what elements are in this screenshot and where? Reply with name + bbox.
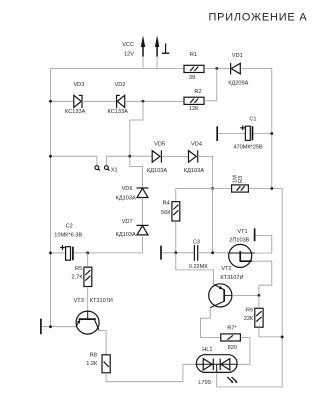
wire VD2 to R2 xyxy=(124,100,184,102)
ground symbol xyxy=(162,44,169,54)
zener VD2 xyxy=(108,82,129,115)
wire VT1 source loop to VT2 base xyxy=(252,261,272,295)
svg-text:VD3: VD3 xyxy=(73,82,84,88)
diode VD1 xyxy=(228,53,248,86)
wire VD6 to VD7 xyxy=(142,198,144,226)
wire arrow2 lead xyxy=(156,57,158,69)
node C3 / vertical from R3 node xyxy=(211,251,214,254)
svg-text:R5: R5 xyxy=(75,266,82,272)
svg-text:R3: R3 xyxy=(238,176,244,183)
node VD6 branch on rail xyxy=(128,155,131,158)
svg-text:HL1: HL1 xyxy=(202,347,212,353)
svg-text:C3: C3 xyxy=(193,239,200,245)
svg-text:2.7К: 2.7К xyxy=(72,274,84,280)
svg-text:КД103А: КД103А xyxy=(116,195,136,201)
svg-text:R8: R8 xyxy=(90,352,97,358)
svg-text:VT1: VT1 xyxy=(237,229,247,235)
resistor R8 xyxy=(86,352,110,372)
resistor R1 xyxy=(184,52,204,81)
svg-text:12К: 12К xyxy=(189,106,199,112)
wire R8 bottom to HL1 left xyxy=(106,364,196,381)
transistor VT1 (JFET 2П103Б) xyxy=(229,229,255,268)
svg-text:C2: C2 xyxy=(66,223,73,229)
wire R1 to VD1 xyxy=(204,68,230,70)
svg-text:0.22МК: 0.22МК xyxy=(189,264,209,270)
capacitor C3 xyxy=(189,239,209,270)
terminal bar VT1 drain xyxy=(254,228,256,241)
svg-text:R6: R6 xyxy=(246,307,253,313)
wire node to R3 xyxy=(213,188,232,190)
wire R6 top xyxy=(258,295,260,308)
wire VT2 base to R6 node xyxy=(232,294,259,296)
node left rail row B xyxy=(49,100,52,103)
svg-text:КД103А: КД103А xyxy=(147,168,167,174)
resistor R3 xyxy=(232,175,249,192)
wire VD7 bottom to C2 row xyxy=(142,235,144,253)
svg-text:VT2: VT2 xyxy=(221,266,231,272)
transistor VT2 (КТ3107И) xyxy=(209,266,244,308)
resistor R6 xyxy=(244,307,263,327)
capacitor C2 xyxy=(54,223,82,260)
svg-text:R7*: R7* xyxy=(227,325,237,331)
svg-text:820: 820 xyxy=(228,345,237,351)
transistor VT3 (КТ3107И) xyxy=(74,298,113,334)
node R3 / right column xyxy=(270,187,273,190)
connector X1 xyxy=(95,166,118,174)
svg-text:R2: R2 xyxy=(194,89,201,95)
diode VD4 xyxy=(184,141,204,174)
wire VT2 collector path to R7 xyxy=(201,308,221,338)
node left rail C2 row xyxy=(49,252,52,255)
node left rail X1 row xyxy=(49,155,52,158)
wire C3 left xyxy=(162,252,194,254)
node VT2 base / R6 xyxy=(258,294,261,297)
diode VD5 xyxy=(147,141,167,174)
wire R3 right to right-edge column xyxy=(217,189,283,388)
wire VD2 node down-jog to X1 rail xyxy=(130,101,143,156)
svg-text:VCC: VCC xyxy=(122,42,134,48)
wire X1 rail right xyxy=(106,156,152,165)
svg-text:10МК*6.3В: 10МК*6.3В xyxy=(54,232,82,238)
wire VT3 emitter row xyxy=(42,326,77,328)
svg-text:56К: 56К xyxy=(161,210,171,216)
wire R7 right to HL1 xyxy=(237,337,250,364)
svg-text:VD5: VD5 xyxy=(154,141,165,147)
svg-text:КТ3107И: КТ3107И xyxy=(90,298,113,304)
svg-text:470МК*25В: 470МК*25В xyxy=(233,144,263,150)
wire C3 right to VT1 gate xyxy=(198,252,229,254)
wire R6 bottom to right column xyxy=(259,327,282,337)
svg-text:C1: C1 xyxy=(249,116,256,122)
svg-text:R1: R1 xyxy=(190,52,197,58)
node R6 / right column xyxy=(281,336,284,339)
wire VD3 to VD2 xyxy=(81,100,116,102)
zener VD3 xyxy=(65,82,86,115)
svg-text:VD7: VD7 xyxy=(122,219,133,225)
node VD2 branch xyxy=(142,100,145,103)
terminal bar C3 xyxy=(160,246,162,260)
terminal bar C1 xyxy=(216,126,218,141)
svg-text:L799: L799 xyxy=(198,380,210,386)
svg-text:22К: 22К xyxy=(244,316,254,322)
svg-text:12V: 12V xyxy=(124,51,134,57)
wire VT2 emitter path xyxy=(176,253,214,285)
node R5 branch xyxy=(86,252,89,255)
capacitor C1 xyxy=(233,116,263,150)
wire node to R4 xyxy=(176,189,213,202)
wire C2 right to VD7 corner xyxy=(74,252,143,254)
wire left rail xyxy=(50,69,52,327)
svg-text:VT3: VT3 xyxy=(74,298,84,304)
node R3/R4 xyxy=(211,187,214,190)
diode VD7 xyxy=(116,219,149,238)
wire VT3 collector to R8 xyxy=(99,330,106,354)
power arrow 2 xyxy=(155,35,159,56)
HL1 emission arrows xyxy=(227,377,237,383)
diode VD6 xyxy=(116,186,149,202)
svg-text:39: 39 xyxy=(189,75,195,81)
svg-text:КД103А: КД103А xyxy=(116,232,136,238)
resistor R2 xyxy=(184,89,204,112)
svg-text:VD1: VD1 xyxy=(232,53,243,59)
terminal bar VT3 emitter xyxy=(40,319,42,335)
svg-text:КС133А: КС133А xyxy=(65,109,86,115)
wire R5 bottom to VT3 base xyxy=(87,287,89,319)
svg-text:X1: X1 xyxy=(111,168,118,174)
wire arrow1 lead xyxy=(142,57,144,69)
node C3 left / VT2 emitter branch xyxy=(174,251,177,254)
svg-text:VD6: VD6 xyxy=(122,186,133,192)
svg-text:КС133А: КС133А xyxy=(108,109,129,115)
wire C2 row left xyxy=(51,252,66,254)
wire node down to C3 row xyxy=(212,189,214,253)
svg-text:VD2: VD2 xyxy=(115,82,126,88)
node C1 / right column xyxy=(270,132,273,135)
wire VD1 to right column xyxy=(241,69,272,189)
LED pair HL1 (Л799) xyxy=(196,347,237,386)
wire VD6 chain from rail xyxy=(130,156,143,187)
svg-text:R4: R4 xyxy=(163,200,170,206)
wire C1 right xyxy=(253,133,271,135)
svg-text:КД209А: КД209А xyxy=(228,80,248,86)
wire X1 rail left xyxy=(51,156,97,165)
wire C1 left xyxy=(218,133,245,135)
wire R2 up to node xyxy=(204,69,217,101)
wire row B left xyxy=(51,100,75,102)
svg-text:VD4: VD4 xyxy=(191,141,202,147)
svg-text:КД103А: КД103А xyxy=(184,168,204,174)
wire VD4 to node xyxy=(198,156,213,188)
node left rail end xyxy=(49,325,52,328)
wire R4 bottom xyxy=(175,221,177,253)
node R1/R2/VD1 xyxy=(215,67,218,70)
svg-text:ПРИЛОЖЕНИЕ А: ПРИЛОЖЕНИЕ А xyxy=(208,11,307,23)
wire VD5 to VD4 xyxy=(161,155,188,157)
resistor R5 xyxy=(72,266,92,287)
svg-text:КТ3107И: КТ3107И xyxy=(220,275,243,281)
wire top rail xyxy=(51,68,185,70)
svg-text:1.2К: 1.2К xyxy=(86,361,98,367)
wire VT1 drain loop xyxy=(255,235,272,253)
wire R5 top lead xyxy=(87,253,89,267)
svg-text:2П103Б: 2П103Б xyxy=(229,237,249,243)
wire HL1 center tap xyxy=(216,372,218,387)
resistor R7 xyxy=(221,325,241,350)
power arrow VCC 1 xyxy=(122,35,145,57)
resistor R4 xyxy=(161,200,180,221)
